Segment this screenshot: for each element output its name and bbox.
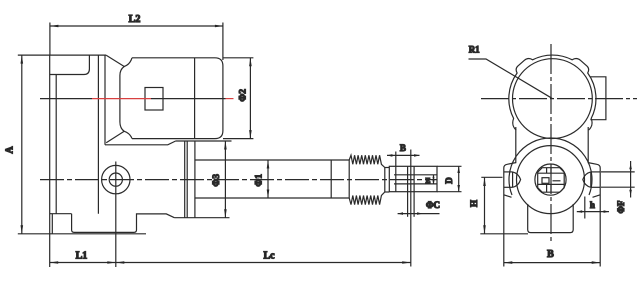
motor front outer contour <box>509 55 596 130</box>
outer tube <box>174 141 231 218</box>
dimension E <box>425 175 434 185</box>
motor housing (side view) <box>132 23 223 139</box>
motor axis centerline <box>40 98 234 100</box>
rear bracket <box>50 55 90 267</box>
right pin boss <box>588 163 600 267</box>
bottom mounting foot (side view) <box>72 214 175 233</box>
main axis centerline <box>40 179 437 181</box>
piston rod <box>195 160 349 198</box>
dimension B (front view) <box>504 249 600 264</box>
lower housing circle <box>517 146 585 214</box>
dimension Phi3 <box>212 141 227 218</box>
label R1 with leader <box>469 45 553 99</box>
left pin lens <box>504 172 521 187</box>
dimension PhiF <box>601 161 635 213</box>
svg-text:R1: R1 <box>469 45 480 55</box>
svg-text:H: H <box>469 200 479 207</box>
svg-text:Lc: Lc <box>263 250 275 261</box>
svg-text:B: B <box>400 143 406 153</box>
motor terminal box <box>145 88 163 111</box>
gearbox under-motor edge <box>105 141 176 145</box>
rod end neck <box>385 168 390 193</box>
front motor horizontal centerline <box>481 98 637 100</box>
dimension h <box>577 197 609 219</box>
mounting hole <box>102 162 130 268</box>
gearbox housing walls <box>98 55 105 214</box>
dimension Lc <box>116 250 411 264</box>
dimension A <box>4 55 146 234</box>
front foot <box>528 204 574 233</box>
bellows bottom <box>349 192 385 205</box>
left pin boss <box>504 163 516 267</box>
dimension D <box>437 166 462 191</box>
dimension PhiC <box>398 200 440 215</box>
clevis rod end <box>389 150 437 267</box>
front baseline <box>480 233 528 235</box>
svg-text:B: B <box>547 249 554 260</box>
svg-text:ΦC: ΦC <box>426 200 440 210</box>
front vertical centerline <box>550 44 552 241</box>
hub circle <box>535 164 566 195</box>
dimension L1 <box>50 250 116 264</box>
hub square <box>538 168 565 193</box>
housing side walls <box>516 127 588 163</box>
dimension L2 <box>50 14 224 55</box>
svg-text:Φ2: Φ2 <box>239 89 249 102</box>
dimension B (side view) <box>387 143 420 157</box>
svg-text:ΦF: ΦF <box>616 200 626 213</box>
motor front circle inner <box>513 59 593 139</box>
svg-text:L2: L2 <box>129 14 141 25</box>
dimension Phi1 <box>255 160 270 198</box>
dimension Phi2 <box>223 58 253 139</box>
side view top edge <box>18 54 106 56</box>
svg-text:D: D <box>444 177 454 184</box>
right pin lens <box>583 172 600 187</box>
svg-text:E: E <box>425 176 430 185</box>
bellows top <box>349 155 385 167</box>
motor flange neck <box>106 55 132 143</box>
dimension H <box>469 177 503 233</box>
svg-text:h: h <box>590 200 595 210</box>
svg-text:L1: L1 <box>76 250 88 261</box>
svg-text:A: A <box>4 146 15 154</box>
lower housing outer arc <box>509 138 592 195</box>
motor tab <box>590 77 606 120</box>
